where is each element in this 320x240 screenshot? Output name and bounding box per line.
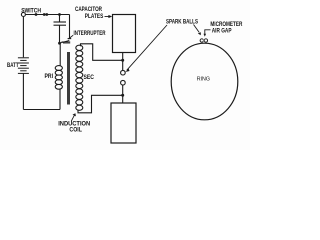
svg-text:SEC: SEC [84, 74, 95, 81]
svg-text:SWITCH: SWITCH [21, 7, 41, 14]
svg-text:SPARK BALLS: SPARK BALLS [166, 19, 199, 26]
svg-text:PRI: PRI [45, 73, 54, 80]
svg-text:COIL: COIL [69, 127, 82, 134]
svg-text:RING: RING [197, 77, 211, 83]
svg-text:BATT: BATT [7, 62, 19, 69]
svg-text:INTERRUPTER: INTERRUPTER [74, 30, 106, 37]
svg-text:AIR GAP: AIR GAP [212, 27, 232, 34]
svg-text:PLATES: PLATES [85, 13, 104, 20]
